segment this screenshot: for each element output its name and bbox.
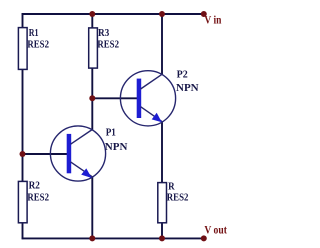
svg-text:P1: P1 <box>106 127 116 139</box>
svg-text:R3: R3 <box>98 27 109 39</box>
svg-text:R1: R1 <box>29 27 39 39</box>
wire P2 base <box>91 97 137 99</box>
resistor R2 <box>18 181 27 222</box>
wire bottom rail <box>22 237 204 239</box>
transistor P2 <box>120 71 175 126</box>
junction node bottom P1 emitter <box>89 235 95 241</box>
junction node top R3 <box>89 11 95 17</box>
wire left rail lower <box>22 223 24 240</box>
resistor R <box>158 183 167 223</box>
wire R3 bottom to node A <box>91 68 93 100</box>
svg-text:NPN: NPN <box>105 141 128 153</box>
wire P1 base <box>22 153 68 155</box>
wire P2 collector lead <box>161 13 163 74</box>
junction node top P2 collector <box>159 11 165 17</box>
svg-text:RES2: RES2 <box>97 39 119 51</box>
node V in terminal <box>201 11 207 17</box>
wire P2 emitter to R <box>161 121 163 183</box>
svg-text:R2: R2 <box>29 180 40 192</box>
svg-text:V in: V in <box>204 14 221 26</box>
wire P1 emitter to bottom rail <box>91 177 93 240</box>
wire R bottom lead <box>161 223 163 240</box>
junction node A (R3 / P2 base / P1 collector) <box>89 95 95 101</box>
svg-text:RES2: RES2 <box>27 191 49 203</box>
svg-text:V out: V out <box>204 225 227 237</box>
resistor R3 <box>89 28 98 68</box>
transistor P1 <box>50 126 105 181</box>
wire left rail middle <box>22 69 24 182</box>
svg-text:RES2: RES2 <box>167 192 189 204</box>
svg-text:RES2: RES2 <box>27 38 49 50</box>
node V out terminal <box>201 235 207 241</box>
wire top rail <box>22 13 204 15</box>
wire R3 top lead <box>91 13 93 28</box>
wire node A to P1 collector <box>91 98 93 130</box>
svg-text:NPN: NPN <box>176 82 199 94</box>
svg-text:P2: P2 <box>177 68 188 80</box>
wire left rail upper <box>22 13 24 28</box>
junction node bottom R <box>159 235 165 241</box>
resistor R1 <box>18 28 27 70</box>
junction node P1 base on left rail <box>20 151 26 157</box>
